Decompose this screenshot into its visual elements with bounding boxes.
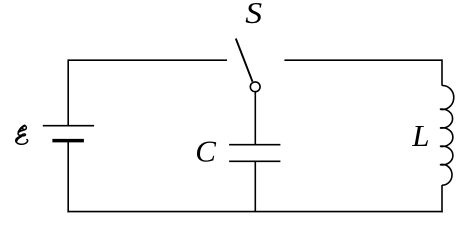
wire top-left segment	[68, 59, 227, 61]
wire switch to capacitor	[254, 92, 256, 144]
wire top-right segment	[284, 59, 442, 61]
battery E: long plate	[43, 125, 94, 127]
capacitor top plate	[229, 144, 280, 146]
switch lever	[236, 39, 253, 82]
wire left vertical upper	[67, 59, 69, 125]
switch hinge circle	[250, 82, 260, 92]
capacitor bottom plate	[229, 160, 280, 162]
svg-text:C: C	[195, 134, 216, 169]
wire bottom	[67, 211, 442, 213]
wire capacitor to bottom	[254, 161, 256, 211]
label EMF script E	[16, 126, 28, 145]
svg-text:S: S	[245, 0, 262, 30]
wire left vertical lower	[67, 141, 69, 213]
svg-text:L: L	[411, 118, 429, 153]
battery E: short thick plate	[52, 139, 84, 143]
wire right vertical upper	[441, 59, 443, 85]
wire right vertical lower	[441, 185, 443, 212]
inductor L coil	[440, 85, 454, 185]
